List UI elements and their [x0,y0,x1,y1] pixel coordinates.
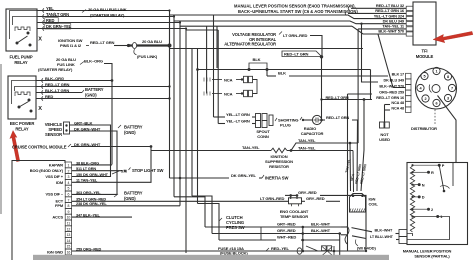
net flag: RED-LT GRN [282,51,322,57]
wire RED-LT GRN vertical to radio capacitor [321,57,323,120]
svg-text:BLK 17: BLK 17 [392,72,404,76]
svg-text:(GND): (GND) [124,130,136,135]
svg-text:PINS I1 & I2: PINS I1 & I2 [60,43,82,48]
wire row3 WHT-RED [198,204,220,241]
svg-text:YEL: YEL [46,6,54,11]
svg-text:6: 6 [67,193,69,197]
wire 347 BLK-YEL pin10 (ACCS) [72,216,132,218]
svg-text:PLUG: PLUG [280,123,291,128]
svg-text:TAN–YEL: TAN–YEL [298,145,316,150]
svg-text:USED: USED [379,137,390,142]
wire RED-LT GRN 16 to distributor [370,70,372,100]
relay K2: EEC power relay box [8,76,36,119]
svg-text:BATTERY: BATTERY [124,125,143,130]
svg-text:14: 14 [67,239,71,243]
wire DK GRN-WHT VSS [70,131,118,194]
wire DK GRN-YEL inertia [179,177,182,180]
svg-text:MANUAL LEVER POSITION SENSOR (: MANUAL LEVER POSITION SENSOR (E4OD TRANS… [234,4,356,9]
svg-text:X: X [38,37,42,43]
svg-text:363 ORG–YEL: 363 ORG–YEL [76,191,101,195]
svg-text:FPM: FPM [55,203,64,208]
svg-text:10: 10 [67,216,71,220]
connector: distributor pin strip [406,73,412,79]
svg-text:TAN/LT GRN: TAN/LT GRN [46,12,69,17]
svg-text:FUEL PUMP: FUEL PUMP [9,55,32,60]
annotation: red arrow at EEC POWER RELAY [10,131,20,162]
svg-text:BOO (E4OD ONLY): BOO (E4OD ONLY) [30,168,64,173]
wire GRY-RED ECT return [285,194,296,196]
wire BLK bus (line A) [196,68,199,71]
sensor: engine coolant temp sensor [289,198,302,204]
connector: SPOUT connector [256,114,261,121]
svg-text:BLK–WHT: BLK–WHT [311,228,331,233]
wire BLK-WHT MLPS [341,226,348,228]
wire row1 GRY-RED BLK-WHT [174,197,205,227]
label: BATTERY (GND) middle [118,125,121,128]
wire 354 LT GRN-RED pin7 (ECT) [72,200,289,202]
svg-text:ORG–RED 259: ORG–RED 259 [379,90,404,94]
svg-text:4: 4 [67,181,69,185]
wire NCA loopback [253,80,258,94]
svg-text:259 ORG–RED: 259 ORG–RED [76,247,102,251]
svg-text:CAPACITOR: CAPACITOR [301,131,324,136]
wire BLK-ORG relay [42,79,43,83]
wire TAN-YEL 11 to TFI [358,28,406,30]
connector: NCA stub lower [203,92,205,96]
distributor rotor [432,85,440,93]
svg-text:BLK: BLK [278,71,286,76]
wire RED relay [42,97,43,101]
svg-text:20 GA BLU: 20 GA BLU [142,39,162,44]
wire 38 BLK-ORG pin1 [72,164,112,166]
svg-text:BLK–WHT 570: BLK–WHT 570 [378,29,405,34]
svg-text:DISTRIBUTOR: DISTRIBUTOR [411,126,437,131]
svg-text:CONN: CONN [257,134,269,139]
wire GRY-BLK VSS [70,125,111,177]
svg-text:CRUISE CONTROL MODULE: CRUISE CONTROL MODULE [12,145,67,150]
wire stub row y30 [186,29,218,31]
svg-text:RED: RED [46,18,54,23]
svg-text:BATTERY: BATTERY [124,191,143,196]
svg-text:8: 8 [447,75,449,79]
connector: MLPS plug [399,230,407,237]
wire YEL-LT GRN spout upper [213,15,215,118]
capacitor: radio capacitor [312,115,321,124]
svg-text:GRY–RED: GRY–RED [298,190,317,195]
svg-text:VSS DIF +: VSS DIF + [45,174,63,179]
svg-text:MODULE: MODULE [416,54,434,59]
wire tie vertical rows1-3 [260,227,262,240]
svg-text:DK BLU 349: DK BLU 349 [383,78,404,82]
connector: PCM pin strip 1-16 [65,162,71,168]
fuel pump relay interior wiring [10,11,38,40]
svg-text:3: 3 [447,97,449,101]
svg-text:RED–LT GRN: RED–LT GRN [326,96,349,100]
svg-text:GRY–RED: GRY–RED [277,228,296,233]
svg-text:D: D [422,195,425,200]
wire TAN/LT GRN [43,15,44,19]
svg-text:DK GRN–WHT: DK GRN–WHT [74,126,101,131]
svg-text:GRY–BLK: GRY–BLK [74,120,93,125]
svg-text:(FUS LINK): (FUS LINK) [137,54,158,59]
wire RED-LT GRN radio capacitor row [320,119,323,122]
svg-text:KAPWR: KAPWR [49,162,64,167]
svg-text:6: 6 [436,102,438,106]
svg-text:BATTERY: BATTERY [85,87,104,92]
svg-text:WHT–RED: WHT–RED [277,235,296,240]
svg-text:2: 2 [67,169,69,173]
svg-text:1: 1 [67,164,69,168]
svg-text:YEL–LT GRN: YEL–LT GRN [226,112,250,117]
wire 11 TAN-YEL pin4 [72,151,151,183]
svg-text:DK GRN–YEL: DK GRN–YEL [231,173,257,178]
svg-text:TFI: TFI [422,49,428,54]
distributor dashed stem [434,110,436,125]
svg-text:N: N [422,182,425,187]
relay K1: fuel pump relay box [6,9,37,51]
svg-text:R: R [431,170,434,175]
svg-text:NCA 48: NCA 48 [391,101,404,105]
svg-text:570: 570 [121,170,127,174]
fuse link 20 GA BLU [127,44,130,47]
wire 259 ORG-RED pin16 (IGN GND) [72,94,348,251]
distributor terminals [433,67,440,74]
wire DK GRN-YEL [43,27,44,31]
svg-text:RESISTOR: RESISTOR [269,164,289,169]
distributor: cap [416,68,457,109]
MLPS selector arm [439,165,444,191]
svg-text:LT GRN–RED: LT GRN–RED [260,196,285,201]
svg-text:BACK–UP/NEUTRAL START SW (C6 &: BACK–UP/NEUTRAL START SW (C6 & AOD TRANS… [238,9,358,14]
wire RED [43,21,44,25]
EEC power relay coil [15,92,30,96]
svg-text:RED–YEL: RED–YEL [271,246,289,251]
svg-text:TAN–YEL: TAN–YEL [242,145,260,150]
svg-text:BLK–WHT: BLK–WHT [311,222,331,227]
wire RED-LT GRN to ignition coil [361,100,364,192]
svg-text:BLK–ORG: BLK–ORG [45,76,64,81]
wire BLK-WHT 570 to distributor [378,34,406,87]
svg-text:(GND): (GND) [124,196,136,201]
wire 511 LT GRN pin2 [72,170,122,172]
svg-text:INERTIA SW: INERTIA SW [265,176,288,181]
connector: small plug on fuse row [322,246,327,251]
module: voltage regulator outline to BLK-WHT row [180,25,352,27]
svg-text:13: 13 [67,233,71,237]
svg-text:7: 7 [451,87,453,91]
connector: shorting plug [269,115,273,126]
svg-text:LT GRN–RED: LT GRN–RED [283,33,308,38]
svg-text:15: 15 [67,245,71,249]
wire twist loop (W/ E4OD) [345,226,349,244]
svg-text:354 LT GRN–RED: 354 LT GRN–RED [76,198,106,202]
svg-text:7: 7 [67,198,69,202]
EEC power relay interior wiring [12,81,37,105]
svg-text:11: 11 [67,222,71,226]
wire YEL-LT GRN spout lower [217,30,219,124]
svg-text:ALTERNATOR REGULATOR: ALTERNATOR REGULATOR [224,42,276,47]
wire YEL [43,9,44,13]
svg-text:11 TAN–YEL: 11 TAN–YEL [76,179,98,183]
annotation: red arrow at TFI module [433,31,473,42]
wire RED-LT GRN long run [170,48,364,50]
label: BATTERY (GND) lower [114,194,118,197]
connector: NCA stub upper [203,78,205,82]
module: PCM box [12,161,65,260]
coil T1: ignition coil box [350,194,366,213]
wire RED-LT GRN relay [42,85,43,89]
wire 150 DK GRN-WHT pin3 [72,176,111,178]
svg-text:38 BLK–ORG: 38 BLK–ORG [76,161,99,165]
svg-text:RELAY: RELAY [14,60,28,65]
grey scrollbar bar [33,255,389,260]
svg-text:TAN–YEL: TAN–YEL [298,138,316,143]
svg-text:511 LT GRN: 511 LT GRN [76,167,96,171]
svg-text:RED–LT GRN: RED–LT GRN [326,116,349,120]
svg-text:NCA: NCA [224,77,233,82]
svg-text:16: 16 [67,251,71,255]
svg-text:GRY–RED: GRY–RED [277,222,296,227]
svg-text:(STARTER RELAY): (STARTER RELAY) [90,13,125,18]
svg-text:SENSOR (PARTIAL): SENSOR (PARTIAL) [414,254,450,259]
wire TAN-YEL branch lower [287,150,353,152]
svg-text:RED–LT GRN: RED–LT GRN [45,82,70,87]
wire GRY-RED ECT [302,200,306,202]
svg-text:1: 1 [436,70,438,74]
svg-text:YEL–LT GRN: YEL–LT GRN [226,118,250,123]
wire YEL-LT GRN 324 to TFI [170,15,407,178]
svg-text:VSS DIF –: VSS DIF – [45,191,63,196]
wire RED-LT GRN 16 to TFI [345,11,346,15]
wire distributor to MLPS [438,96,457,163]
svg-text:20 GA BLU FUS LINK: 20 GA BLU FUS LINK [88,7,127,12]
wire LT GRN-RED [279,32,282,35]
wire BLK-LT GRN relay [42,91,43,95]
svg-text:BLK–WHT: BLK–WHT [375,229,394,233]
svg-text:238 DK GRN–YEL: 238 DK GRN–YEL [76,202,107,206]
svg-text:TEMP SENSOR: TEMP SENSOR [280,214,308,219]
svg-text:EEC POWER: EEC POWER [10,121,35,126]
svg-text:GRY–RED: GRY–RED [306,196,325,201]
svg-text:347 BLK–YEL: 347 BLK–YEL [76,214,100,218]
module U1: TFI module box [413,2,436,45]
wire ORG-RED 259 to distributor [348,93,373,95]
svg-text:5: 5 [67,187,69,191]
connector: not used plug [380,122,385,128]
wire LT BLU-WHT MLPS [341,234,348,236]
svg-text:RED–LT GRN: RED–LT GRN [90,40,115,45]
wire TAN-YEL branch upper [290,149,293,152]
svg-text:NCA 48: NCA 48 [391,106,404,110]
svg-text:SENSOR: SENSOR [45,132,62,137]
svg-text:BLK–ORG: BLK–ORG [84,59,103,64]
wire BLK 17 row (line B) [266,70,268,77]
wire diagonal to fuse-block plug [306,246,332,251]
wire 20GA BLU vertical [169,11,171,99]
svg-text:STOP LIGHT SW: STOP LIGHT SW [132,168,163,173]
svg-text:IDM: IDM [56,180,64,185]
svg-text:LT BLU–WHT: LT BLU–WHT [370,235,394,239]
svg-text:RED: RED [45,94,53,99]
svg-text:RED–LT GRN 16: RED–LT GRN 16 [376,96,404,100]
wire DK BLU 349 to TFI [174,21,406,24]
svg-text:COIL: COIL [369,202,379,207]
module: MLPS box [407,163,468,245]
wire 238 DK GRN-YEL pin8 (FPM) [72,205,180,207]
wire 363 ORG-YEL pin6 [72,193,117,195]
wire RED-LT BLU 32 to TFI [348,6,349,10]
resistor: ignition suppression resistor [271,148,287,153]
svg-text:(W/ E4OD): (W/ E4OD) [357,245,376,250]
svg-text:9: 9 [67,210,69,214]
fuel pump relay contacts [27,32,30,35]
svg-text:2: 2 [425,97,427,101]
svg-text:(GND): (GND) [85,93,97,98]
svg-text:RELAY: RELAY [15,127,29,132]
wire vertical x339.7 from row2 [338,232,341,235]
svg-text:IGN GND: IGN GND [47,249,63,254]
EEC power relay contacts [28,99,31,102]
svg-text:DK GRN–YEL: DK GRN–YEL [46,24,72,29]
svg-text:12: 12 [67,227,71,231]
svg-text:BLK: BLK [253,57,261,62]
svg-text:5: 5 [424,75,426,79]
svg-text:RED–LT GRN: RED–LT GRN [284,51,309,56]
svg-text:ACCS: ACCS [52,215,63,220]
wire DK BLU 349 to distributor [362,24,379,82]
switch: clutch cycling pres sw [219,218,222,221]
svg-text:X: X [38,106,42,112]
svg-text:8: 8 [67,204,69,208]
svg-text:NCA: NCA [224,91,233,96]
svg-text:BLK–WHT 570: BLK–WHT 570 [379,84,404,88]
svg-text:(STARTER RELAY): (STARTER RELAY) [38,67,73,72]
MLPS resistor ladder [410,166,414,232]
MLPS contacts P R N D 2 1 [438,164,441,167]
svg-text:150 DK GRN–WHT: 150 DK GRN–WHT [76,173,109,177]
wire row2 GRY-RED BLK-WHT [191,49,193,197]
svg-text:3: 3 [67,175,69,179]
fuel pump relay coil [15,27,30,31]
svg-text:BLK–LT GRN: BLK–LT GRN [45,88,69,93]
left edge grey sliver [0,64,2,214]
TFI module pins [406,6,413,10]
